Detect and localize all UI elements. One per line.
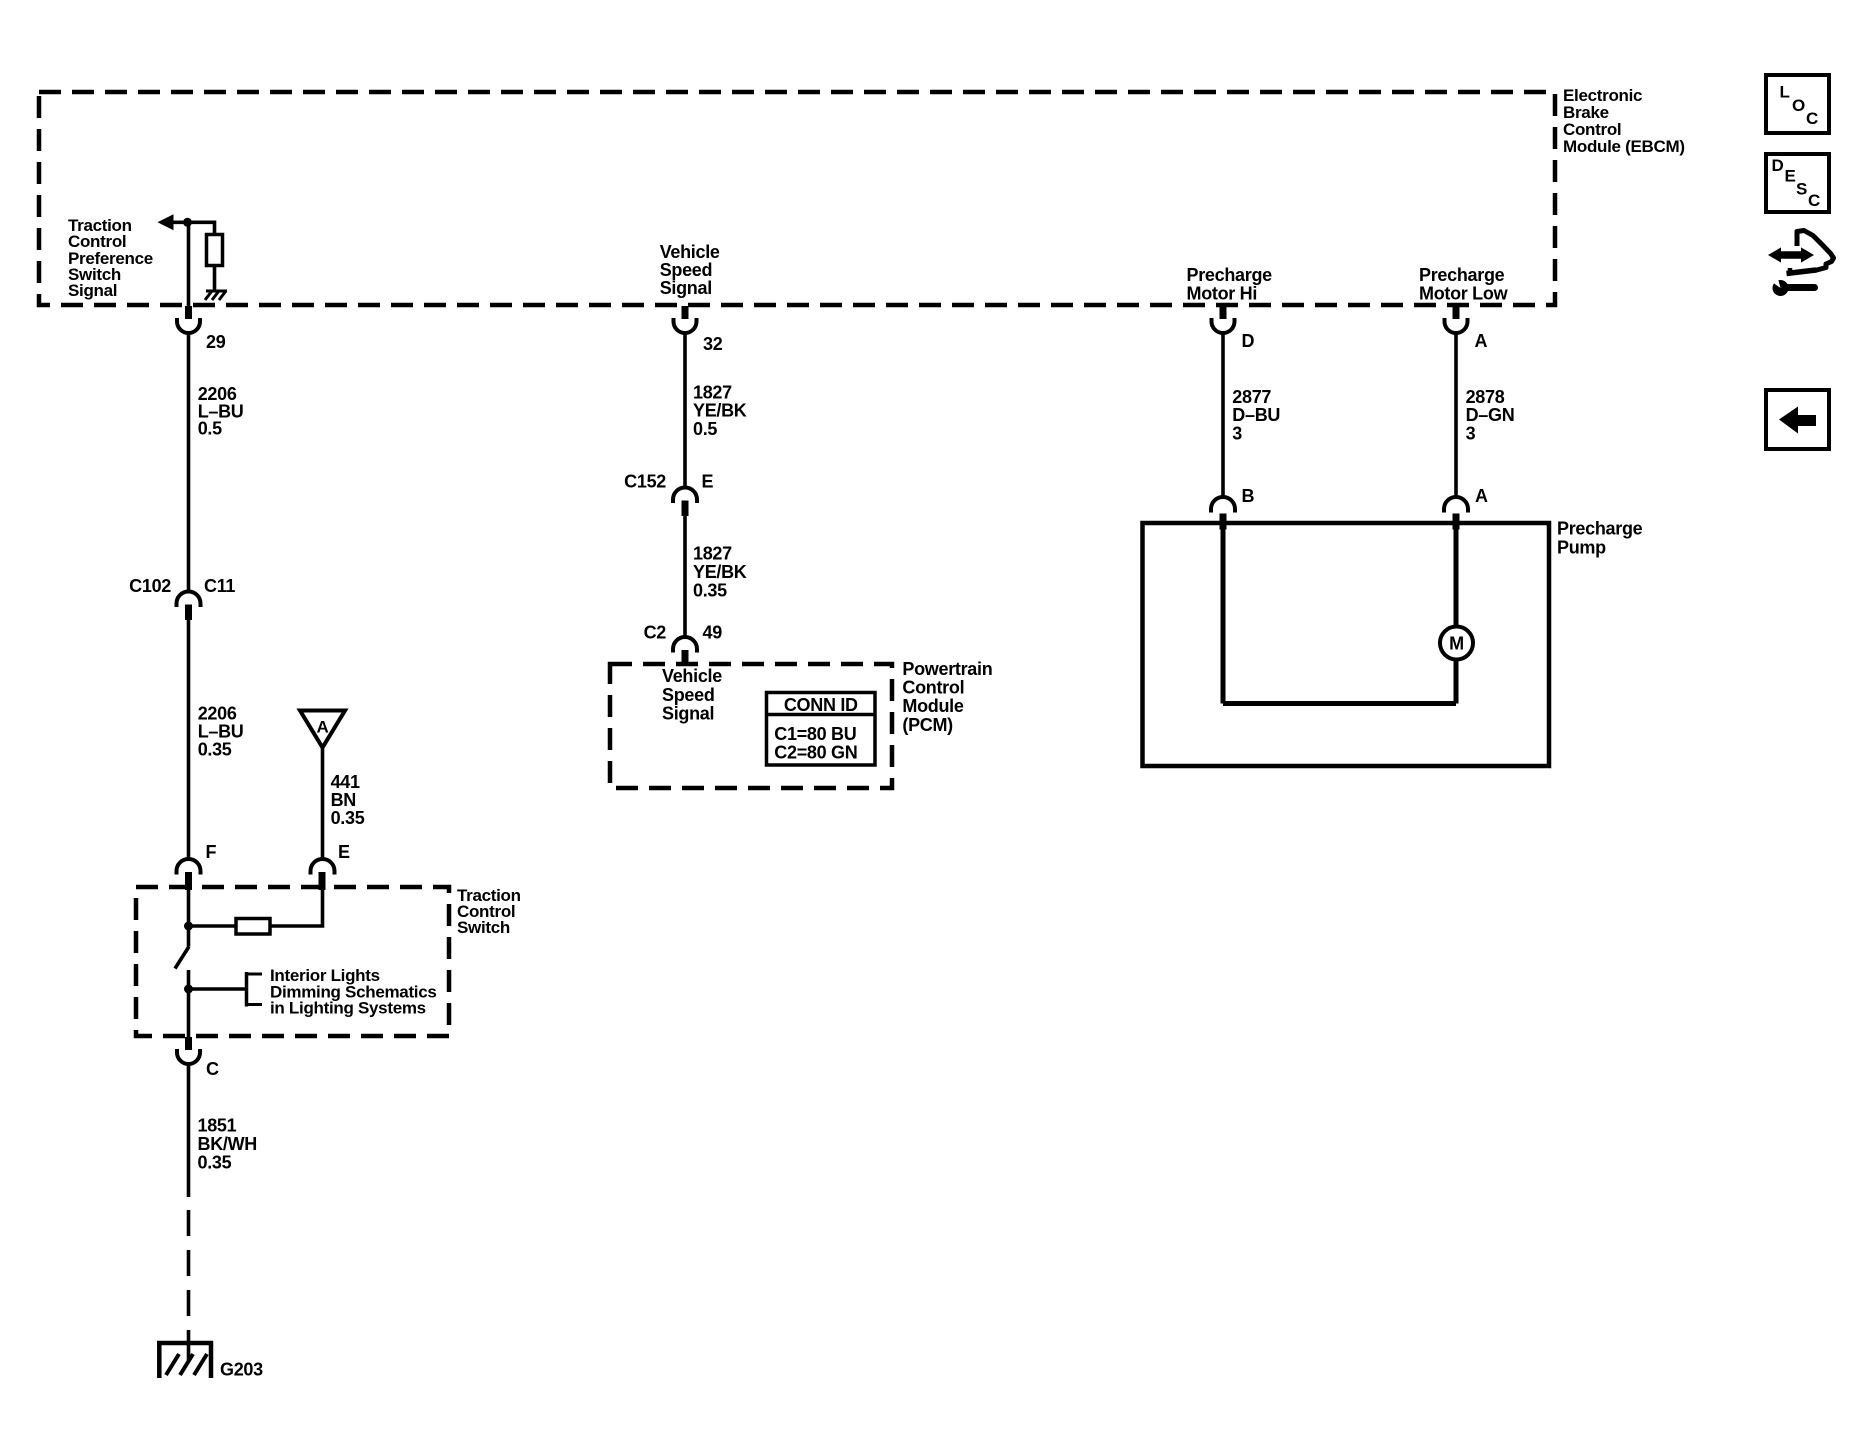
svg-text:Signal: Signal xyxy=(68,281,117,300)
wire EBCM pin 29 xyxy=(187,222,191,307)
Powertrain Control Module (PCM) label xyxy=(902,659,992,735)
pump wire B down xyxy=(1221,529,1226,704)
svg-text:1851: 1851 xyxy=(198,1116,237,1136)
svg-text:0.35: 0.35 xyxy=(331,808,365,828)
Precharge Motor Hi label xyxy=(1187,265,1273,304)
svg-text:BN: BN xyxy=(331,790,356,810)
wire F into switch xyxy=(187,889,191,947)
switch blade xyxy=(175,947,189,969)
svg-text:Vehicle: Vehicle xyxy=(660,242,720,262)
svg-text:(PCM): (PCM) xyxy=(902,715,953,735)
svg-text:G203: G203 xyxy=(220,1360,263,1380)
LOC icon box xyxy=(1766,75,1829,133)
DESC icon box xyxy=(1766,154,1829,212)
junction dot xyxy=(183,218,192,227)
svg-text:E: E xyxy=(702,472,714,492)
Traction Control Preference Switch Signal label xyxy=(68,216,153,300)
connector C102 / C11 xyxy=(177,592,201,608)
svg-text:0.5: 0.5 xyxy=(198,419,222,439)
svg-text:Precharge: Precharge xyxy=(1419,265,1505,285)
svg-text:A: A xyxy=(1475,486,1488,506)
svg-text:D: D xyxy=(1772,156,1784,175)
svg-text:D–GN: D–GN xyxy=(1466,405,1515,425)
wire 1827 YE/BK 0.5 xyxy=(683,333,687,488)
ground G203 xyxy=(157,1341,213,1378)
service icon: vehicle outline xyxy=(1797,231,1834,271)
svg-text:Module: Module xyxy=(902,696,963,716)
pump wire motor to bottom xyxy=(1454,659,1459,704)
svg-text:YE/BK: YE/BK xyxy=(693,401,747,421)
wire 1827 YE/BK 0.35 xyxy=(683,516,687,637)
wire 441 BN 0.35 xyxy=(321,749,325,860)
Precharge Pump label xyxy=(1557,519,1643,558)
wire 2877 D-BU 3 xyxy=(1221,333,1225,497)
triangle splice A xyxy=(300,711,345,748)
wire to switch resistor xyxy=(189,924,237,928)
svg-text:Precharge: Precharge xyxy=(1557,519,1643,539)
Interior Lights label xyxy=(270,966,437,1018)
svg-text:0.5: 0.5 xyxy=(693,419,717,439)
pin D socket arc xyxy=(1212,318,1235,333)
Precharge Pump box xyxy=(1143,523,1550,766)
wire arrow to resistor branch xyxy=(171,222,215,234)
junction dot lamp tap xyxy=(184,985,193,994)
svg-text:441: 441 xyxy=(331,772,360,792)
svg-text:E: E xyxy=(1785,167,1796,186)
wire 2206 L-BU 0.5 xyxy=(187,333,191,592)
svg-text:1827: 1827 xyxy=(693,382,732,402)
connector C2 pin 49 xyxy=(673,637,697,653)
svg-text:C11: C11 xyxy=(204,576,235,596)
junction dot resistor tap xyxy=(184,922,193,931)
wire 2206 L-BU 0.35 xyxy=(187,620,191,860)
motor M xyxy=(1440,627,1473,660)
svg-text:D–BU: D–BU xyxy=(1232,405,1280,425)
PCM dashed box xyxy=(610,664,892,788)
svg-text:2877: 2877 xyxy=(1232,387,1271,407)
svg-text:0.35: 0.35 xyxy=(198,740,232,760)
svg-text:Switch: Switch xyxy=(457,918,510,937)
lamp bracket xyxy=(247,972,263,1007)
pin 29 socket arc xyxy=(177,318,200,333)
svg-text:C1=80 BU: C1=80 BU xyxy=(774,724,856,744)
svg-text:32: 32 xyxy=(703,334,723,354)
wire resistor to E xyxy=(270,890,323,926)
EBCM dashed box xyxy=(39,92,1555,305)
wire 2878 D-GN 3 xyxy=(1454,333,1458,497)
svg-text:Signal: Signal xyxy=(660,278,712,298)
svg-text:in Lighting Systems: in Lighting Systems xyxy=(270,999,426,1018)
connector B (pump) xyxy=(1211,497,1235,513)
svg-text:D: D xyxy=(1242,331,1255,351)
svg-text:C102: C102 xyxy=(129,576,171,596)
svg-text:Powertrain: Powertrain xyxy=(902,659,992,679)
svg-text:C2: C2 xyxy=(644,623,667,643)
svg-text:1827: 1827 xyxy=(693,544,732,564)
svg-text:E: E xyxy=(338,842,350,862)
svg-text:F: F xyxy=(206,842,217,862)
svg-text:C: C xyxy=(1808,191,1820,210)
svg-text:L: L xyxy=(1780,83,1790,102)
svg-text:2206: 2206 xyxy=(198,704,237,724)
svg-text:C: C xyxy=(206,1059,219,1079)
back arrow icon box xyxy=(1766,390,1829,449)
svg-text:Speed: Speed xyxy=(660,260,713,280)
svg-text:3: 3 xyxy=(1232,424,1242,444)
connector F xyxy=(177,859,201,875)
service icon: wrench xyxy=(1769,272,1815,297)
wire resistor to chassis ground xyxy=(213,266,217,292)
wire lamp tap xyxy=(189,987,247,991)
svg-text:O: O xyxy=(1792,96,1805,115)
svg-text:B: B xyxy=(1242,486,1255,506)
chassis ground (EBCM internal) xyxy=(205,291,227,300)
EBCM label xyxy=(1563,86,1685,156)
svg-text:3: 3 xyxy=(1466,424,1476,444)
svg-text:29: 29 xyxy=(206,332,226,352)
Traction Control Switch dashed box xyxy=(136,887,449,1036)
resistor R (EBCM internal) xyxy=(207,235,223,266)
wire 1851 BK/WH 0.35 xyxy=(187,1064,191,1197)
svg-text:M: M xyxy=(1449,634,1464,654)
svg-text:C152: C152 xyxy=(624,472,666,492)
svg-text:S: S xyxy=(1796,180,1807,199)
pin 32 tick xyxy=(682,306,689,319)
pin 29 tick xyxy=(185,306,192,319)
svg-text:A: A xyxy=(317,718,329,737)
svg-text:2878: 2878 xyxy=(1466,387,1505,407)
svg-text:49: 49 xyxy=(703,623,723,643)
svg-text:Module (EBCM): Module (EBCM) xyxy=(1563,137,1685,156)
svg-text:Motor Hi: Motor Hi xyxy=(1187,284,1258,304)
svg-text:C2=80 GN: C2=80 GN xyxy=(774,743,857,763)
dashed wire to ground xyxy=(187,1210,191,1341)
pin D tick xyxy=(1220,306,1227,319)
pin 32 socket arc xyxy=(674,318,697,333)
pump wire bottom horizontal xyxy=(1223,701,1456,706)
service icon: double arrow xyxy=(1768,247,1814,262)
svg-text:L–BU: L–BU xyxy=(198,722,244,742)
CONN ID table xyxy=(767,693,876,766)
Precharge Motor Low label xyxy=(1419,265,1509,304)
svg-text:Precharge: Precharge xyxy=(1187,265,1273,285)
connector E xyxy=(311,859,335,875)
svg-text:0.35: 0.35 xyxy=(198,1153,232,1173)
Vehicle Speed Signal (EBCM pin 32) label xyxy=(660,242,720,298)
svg-text:BK/WH: BK/WH xyxy=(198,1134,258,1154)
connector C xyxy=(185,1037,192,1050)
pin A socket arc (EBCM) xyxy=(1445,318,1468,333)
svg-text:YE/BK: YE/BK xyxy=(693,562,747,582)
pin A tick (EBCM) xyxy=(1453,306,1460,319)
Vehicle Speed Signal (PCM) label xyxy=(662,666,722,723)
svg-text:Control: Control xyxy=(902,678,964,698)
svg-text:Signal: Signal xyxy=(662,703,714,723)
switch resistor xyxy=(236,919,270,935)
svg-text:A: A xyxy=(1475,331,1488,351)
wire below blade to C xyxy=(187,970,191,1038)
svg-text:Pump: Pump xyxy=(1557,537,1606,557)
svg-text:0.35: 0.35 xyxy=(693,580,727,600)
connector A (pump) xyxy=(1444,497,1468,513)
svg-text:Vehicle: Vehicle xyxy=(662,666,722,686)
svg-text:CONN ID: CONN ID xyxy=(784,695,858,715)
svg-text:Speed: Speed xyxy=(662,685,715,705)
connector C152 pin E xyxy=(673,488,697,504)
pump wire A to motor xyxy=(1454,529,1459,628)
svg-text:Motor Low: Motor Low xyxy=(1419,284,1509,304)
signal arrow (points left) xyxy=(158,214,174,230)
svg-text:C: C xyxy=(1806,109,1818,128)
